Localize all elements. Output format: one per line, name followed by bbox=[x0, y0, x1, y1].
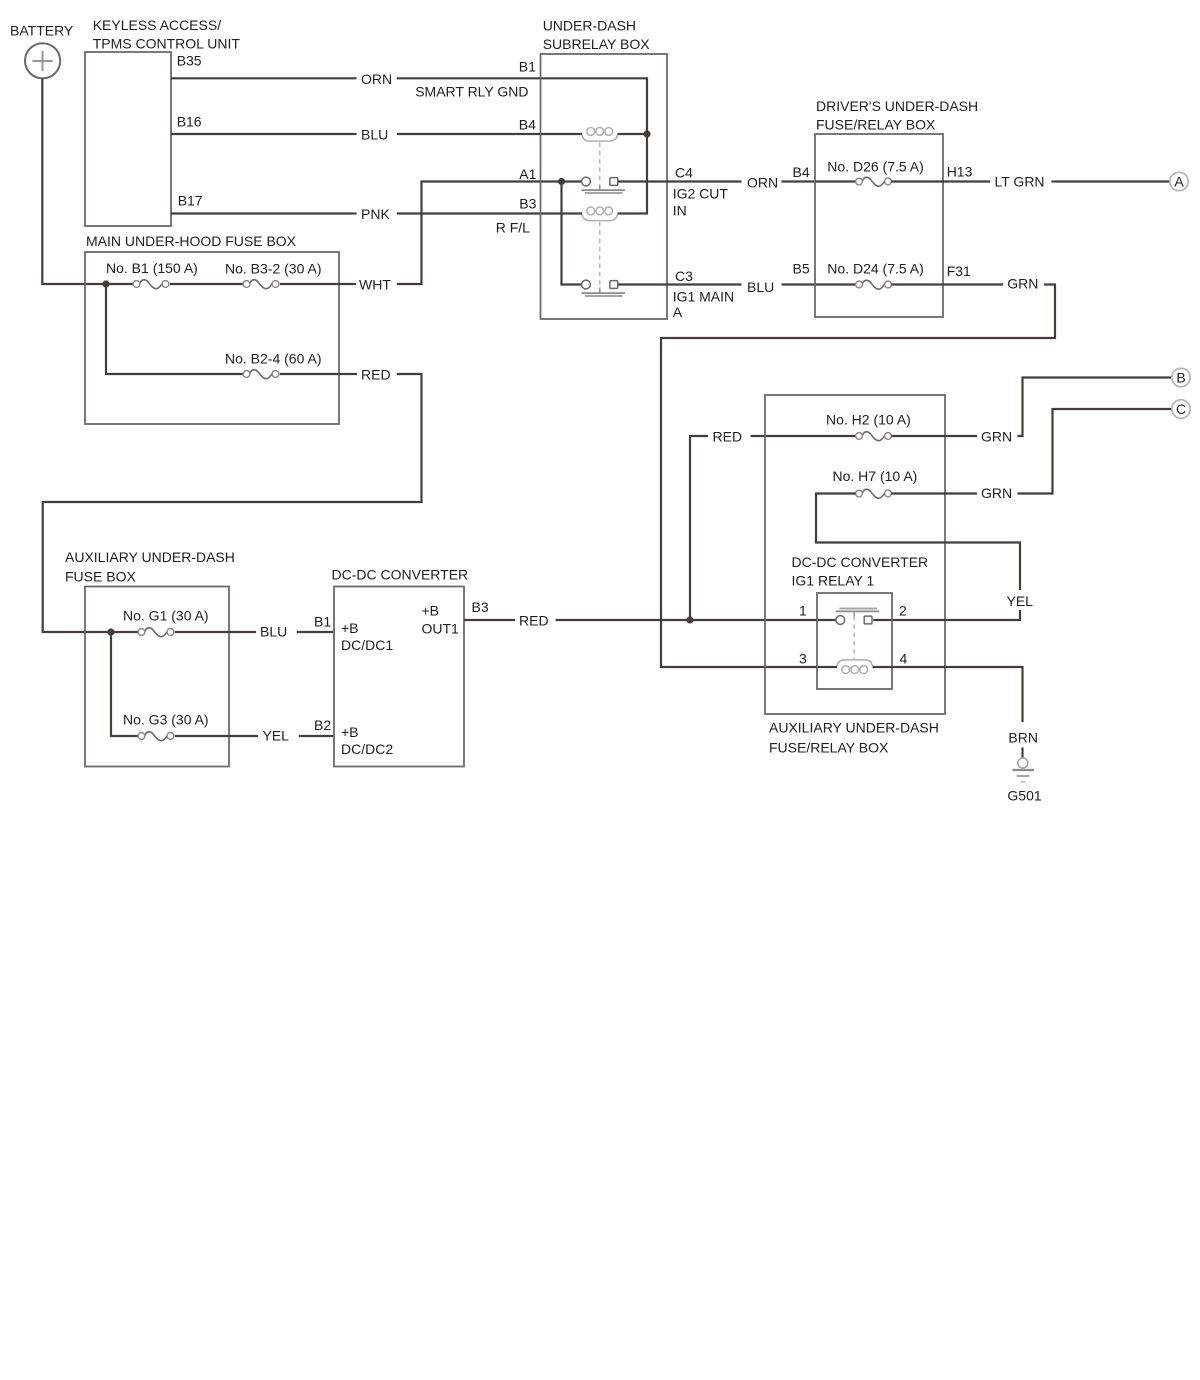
wire GRN to connector C bbox=[1018, 409, 1173, 494]
svg-text:DRIVER'S UNDER-DASH: DRIVER'S UNDER-DASH bbox=[816, 98, 978, 114]
wire switch1 to C4 ORN bbox=[618, 180, 742, 182]
svg-text:B1: B1 bbox=[519, 59, 536, 75]
svg-text:1: 1 bbox=[799, 603, 807, 619]
svg-text:MAIN UNDER-HOOD FUSE BOX: MAIN UNDER-HOOD FUSE BOX bbox=[86, 233, 297, 249]
svg-text:No. B2-4 (60 A): No. B2-4 (60 A) bbox=[225, 351, 322, 367]
fuse No. H7 (10 A) bbox=[856, 489, 892, 498]
svg-text:IN: IN bbox=[673, 203, 687, 219]
svg-text:F31: F31 bbox=[947, 263, 971, 279]
svg-text:B: B bbox=[1176, 369, 1185, 385]
wire coil1 to junction bbox=[618, 133, 648, 135]
wire GRN to connector B bbox=[1018, 378, 1173, 437]
driver's under-dash fuse/relay box bbox=[815, 134, 943, 317]
fuse No. D26 (7.5 A) bbox=[856, 177, 892, 186]
wire H2 to GRN bbox=[891, 435, 977, 437]
junction node G1 bbox=[107, 628, 114, 635]
svg-text:B2: B2 bbox=[314, 717, 331, 733]
svg-text:IG1 MAIN: IG1 MAIN bbox=[673, 288, 734, 304]
svg-text:AUXILIARY UNDER-DASH: AUXILIARY UNDER-DASH bbox=[769, 720, 939, 736]
dashed link coil1-switch1 bbox=[599, 143, 601, 185]
svg-text:B4: B4 bbox=[793, 164, 810, 180]
keyless access/TPMS control unit box U1 bbox=[85, 52, 171, 226]
wire WHT out of fuse box bbox=[280, 283, 356, 285]
ground G501 bbox=[1013, 758, 1035, 782]
wire YEL to DC-DC B2 bbox=[299, 735, 334, 737]
wire battery to main fuse box bbox=[42, 79, 133, 285]
wire ORN to driver box D26 bbox=[782, 180, 856, 182]
wire RED branch up to H2 bbox=[690, 436, 708, 620]
svg-text:YEL: YEL bbox=[263, 727, 290, 743]
junction node RED branch bbox=[686, 616, 693, 623]
svg-text:No. D26 (7.5 A): No. D26 (7.5 A) bbox=[827, 159, 924, 175]
svg-text:DC-DC CONVERTER: DC-DC CONVERTER bbox=[792, 554, 929, 570]
wire G3 to YEL bbox=[175, 735, 258, 737]
svg-text:No. G3 (30 A): No. G3 (30 A) bbox=[123, 712, 209, 728]
wire YEL lower segment to pin 2 bbox=[873, 610, 1020, 620]
svg-text:No. G1 (30 A): No. G1 (30 A) bbox=[123, 608, 209, 624]
svg-text:No. B1 (150 A): No. B1 (150 A) bbox=[106, 260, 198, 276]
wire B16 BLU to subrelay B4 coil bbox=[171, 133, 357, 135]
wire RED to relay pin 1 bbox=[556, 619, 836, 621]
under-dash subrelay box bbox=[541, 54, 668, 319]
svg-text:B16: B16 bbox=[177, 114, 202, 130]
svg-text:PNK: PNK bbox=[361, 206, 390, 222]
svg-text:B4: B4 bbox=[519, 116, 536, 132]
svg-text:BLU: BLU bbox=[260, 624, 287, 640]
svg-text:No. H7 (10 A): No. H7 (10 A) bbox=[833, 468, 918, 484]
svg-text:+B: +B bbox=[341, 620, 359, 636]
wire GRN route to relay pin 3 bbox=[661, 285, 1055, 668]
svg-text:R F/L: R F/L bbox=[496, 220, 530, 236]
svg-text:DC/DC1: DC/DC1 bbox=[341, 637, 393, 653]
svg-text:No. H2 (10 A): No. H2 (10 A) bbox=[826, 412, 911, 428]
svg-text:RED: RED bbox=[361, 367, 391, 383]
subrelay switch 2 bbox=[582, 280, 626, 296]
svg-text:ORN: ORN bbox=[361, 71, 392, 87]
svg-text:BRN: BRN bbox=[1008, 730, 1038, 746]
wire BRN to ground bbox=[1021, 748, 1023, 759]
svg-text:A1: A1 bbox=[519, 166, 536, 182]
junction node A1 branch bbox=[558, 178, 565, 185]
svg-text:YEL: YEL bbox=[1007, 593, 1034, 609]
wire H7 to GRN bbox=[891, 492, 977, 494]
fuse No. G3 (30 A) bbox=[138, 732, 174, 741]
dashed link coil2-switch2 bbox=[599, 222, 601, 287]
svg-text:FUSE/RELAY BOX: FUSE/RELAY BOX bbox=[816, 117, 936, 133]
wire BLU to driver box D24 bbox=[782, 283, 856, 285]
wire RED long route to auxiliary fuse box bbox=[43, 374, 422, 632]
svg-text:SUBRELAY BOX: SUBRELAY BOX bbox=[543, 36, 651, 52]
fuse No. B1 (150 A) bbox=[133, 280, 169, 289]
svg-text:KEYLESS ACCESS/: KEYLESS ACCESS/ bbox=[93, 17, 222, 33]
svg-text:B17: B17 bbox=[178, 193, 203, 209]
fuse No. G1 (30 A) bbox=[138, 628, 174, 637]
svg-text:+B: +B bbox=[341, 724, 359, 740]
wire between B1 and B3-2 fuses bbox=[170, 283, 243, 285]
wire B35 ORN to subrelay B1 bbox=[171, 77, 357, 79]
svg-text:C: C bbox=[1176, 401, 1186, 417]
IG1 relay switch (mirrored) bbox=[836, 609, 880, 625]
connector B bbox=[1172, 368, 1190, 386]
subrelay coil 1 bbox=[582, 128, 618, 142]
svg-text:+B: +B bbox=[422, 603, 440, 619]
svg-text:IG1 RELAY 1: IG1 RELAY 1 bbox=[792, 573, 875, 589]
wire A1 branch down to switch 2 bbox=[562, 182, 582, 285]
svg-text:2: 2 bbox=[899, 603, 907, 619]
wire RED to fuse H2 bbox=[751, 435, 856, 437]
DC-DC converter IG1 relay 1 bbox=[817, 593, 892, 689]
wire D26 to LT GRN bbox=[891, 180, 990, 182]
fuse No. B3-2 (30 A) bbox=[243, 280, 279, 289]
svg-text:RED: RED bbox=[519, 612, 549, 628]
svg-text:B3: B3 bbox=[472, 599, 489, 615]
DC-DC converter box bbox=[334, 587, 464, 767]
svg-text:SMART RLY GND: SMART RLY GND bbox=[415, 83, 528, 99]
svg-text:GRN: GRN bbox=[981, 485, 1012, 501]
svg-text:A: A bbox=[673, 304, 683, 320]
svg-text:3: 3 bbox=[799, 651, 807, 667]
svg-text:UNDER-DASH: UNDER-DASH bbox=[543, 18, 636, 34]
wire WHT corner up to A1 bbox=[397, 182, 582, 285]
svg-text:4: 4 bbox=[900, 651, 908, 667]
subrelay switch 1 bbox=[582, 177, 626, 193]
wire junction down to B2-4 row bbox=[106, 284, 243, 374]
svg-text:C4: C4 bbox=[675, 164, 693, 180]
svg-text:LT GRN: LT GRN bbox=[995, 173, 1045, 189]
svg-text:TPMS CONTROL UNIT: TPMS CONTROL UNIT bbox=[93, 36, 241, 52]
wire B17 PNK to subrelay B3 coil bbox=[171, 212, 357, 214]
svg-text:A: A bbox=[1174, 173, 1184, 189]
svg-text:FUSE BOX: FUSE BOX bbox=[65, 569, 136, 585]
svg-text:DC-DC CONVERTER: DC-DC CONVERTER bbox=[332, 567, 469, 583]
auxiliary under-dash fuse box bbox=[85, 587, 229, 767]
svg-text:B1: B1 bbox=[314, 614, 331, 630]
wire RED out of fuse box bbox=[280, 373, 357, 375]
svg-text:RED: RED bbox=[713, 428, 743, 444]
svg-text:AUXILIARY UNDER-DASH: AUXILIARY UNDER-DASH bbox=[65, 549, 235, 565]
svg-text:B35: B35 bbox=[177, 53, 202, 69]
connector C bbox=[1172, 400, 1190, 418]
svg-text:FUSE/RELAY BOX: FUSE/RELAY BOX bbox=[769, 740, 889, 756]
svg-text:BLU: BLU bbox=[361, 126, 388, 142]
wire BLU to DC-DC B1 bbox=[297, 631, 334, 633]
svg-text:GRN: GRN bbox=[981, 428, 1012, 444]
svg-text:BATTERY: BATTERY bbox=[10, 23, 74, 39]
wire B3 RED out bbox=[464, 619, 515, 621]
svg-text:IG2 CUT: IG2 CUT bbox=[673, 186, 729, 202]
fuse No. H2 (10 A) bbox=[856, 432, 892, 441]
wire to connector A bbox=[1052, 180, 1171, 182]
dashed link IG1 relay bbox=[853, 616, 855, 659]
svg-text:B5: B5 bbox=[793, 260, 810, 276]
wire D24 to GRN bbox=[891, 283, 1003, 285]
subrelay coil 2 bbox=[582, 207, 618, 221]
IG1 relay coil (mirrored) bbox=[837, 660, 873, 674]
svg-text:H13: H13 bbox=[947, 164, 973, 180]
wire G1 to BLU bbox=[175, 631, 256, 633]
svg-text:BLU: BLU bbox=[747, 279, 774, 295]
svg-text:C3: C3 bbox=[675, 268, 693, 284]
junction node on WHT feed bbox=[102, 280, 109, 287]
wire switch2 to C3 BLU bbox=[618, 283, 742, 285]
auxiliary under-dash fuse/relay box bbox=[765, 395, 945, 714]
main under-hood fuse box bbox=[85, 252, 339, 424]
junction node coil commons bbox=[643, 130, 650, 137]
fuse No. D24 (7.5 A) bbox=[856, 280, 892, 289]
wire coil to pin 4 bbox=[873, 667, 1023, 722]
fuse No. B2-4 (60 A) bbox=[243, 370, 279, 379]
svg-text:OUT1: OUT1 bbox=[422, 621, 460, 637]
svg-text:No. D24 (7.5 A): No. D24 (7.5 A) bbox=[827, 261, 924, 277]
connector A bbox=[1170, 172, 1188, 190]
svg-text:G501: G501 bbox=[1007, 788, 1041, 804]
wire H7 feed from relay pin 2 bbox=[816, 494, 1020, 591]
svg-text:B3: B3 bbox=[519, 196, 536, 212]
svg-text:DC/DC2: DC/DC2 bbox=[341, 741, 393, 757]
svg-text:ORN: ORN bbox=[747, 175, 778, 191]
svg-text:WHT: WHT bbox=[359, 277, 391, 293]
svg-text:GRN: GRN bbox=[1007, 276, 1038, 292]
wire junction to G3 bbox=[111, 632, 138, 736]
svg-text:No. B3-2 (30 A): No. B3-2 (30 A) bbox=[225, 261, 322, 277]
battery B+ symbol bbox=[25, 43, 60, 78]
